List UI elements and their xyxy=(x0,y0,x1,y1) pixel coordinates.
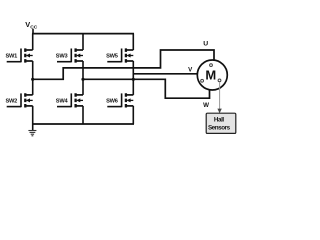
transistor SW2 gate lead xyxy=(7,106,21,108)
wire phase leg SW3-SW4 xyxy=(82,61,84,95)
wire phase A to motor U xyxy=(33,50,214,79)
transistor SW2 body arrow xyxy=(26,98,30,102)
svg-text:SW5: SW5 xyxy=(106,54,118,60)
svg-text:SW1: SW1 xyxy=(6,54,18,60)
transistor SW3 drain stub xyxy=(77,49,84,51)
transistor SW3 body arrow xyxy=(76,54,80,58)
transistor SW5 gate lead xyxy=(107,61,121,63)
transistor SW2 channel bar xyxy=(24,93,26,107)
transistor SW6 channel bar xyxy=(125,93,127,107)
transistor SW4 gate lead xyxy=(57,106,71,108)
transistor SW1 channel bar xyxy=(24,48,26,62)
junction node phase A xyxy=(31,78,34,81)
wire phase C to motor V xyxy=(133,73,197,75)
transistor SW5 channel bar xyxy=(125,48,127,62)
block Hall Sensors xyxy=(206,113,236,133)
motor terminal lower-left xyxy=(201,79,204,82)
svg-text:Hall: Hall xyxy=(214,117,224,124)
transistor SW5 body lead xyxy=(129,55,133,57)
transistor SW4 body arrow xyxy=(76,98,80,102)
transistor SW5 drain stub xyxy=(127,49,134,51)
wire Vcc top rail xyxy=(32,33,134,35)
transistor SW6 drain stub xyxy=(127,94,134,96)
transistor SW5 body arrow xyxy=(127,54,131,58)
wire top rail to SW3 drain xyxy=(82,34,84,50)
transistor SW2 source stub xyxy=(26,105,33,107)
transistor SW4 body lead xyxy=(79,99,83,101)
svg-text:Sensors: Sensors xyxy=(208,124,231,131)
wire SW2 source to bottom rail xyxy=(32,106,34,124)
transistor SW4 source stub xyxy=(77,105,84,107)
transistor SW4 channel bar xyxy=(74,93,76,107)
transistor SW5 source stub xyxy=(127,60,134,62)
transistor SW3 body lead xyxy=(79,55,83,57)
svg-text:SW4: SW4 xyxy=(56,98,69,104)
transistor SW1 body arrow xyxy=(26,54,30,58)
wire phase B/C to motor W xyxy=(83,79,210,98)
transistor SW2 drain stub xyxy=(26,94,33,96)
transistor SW1 body lead xyxy=(29,55,33,57)
transistor SW6 gate lead xyxy=(107,106,121,108)
transistor SW6 body arrow xyxy=(127,98,131,102)
Vcc stub xyxy=(32,29,34,34)
wire motor to hall sensors (sense line) xyxy=(219,82,221,110)
transistor SW2 gate bar xyxy=(20,93,22,107)
transistor SW1 gate lead xyxy=(7,61,21,63)
svg-text:M: M xyxy=(205,67,216,82)
wire ground bottom rail xyxy=(32,123,134,125)
transistor SW2 body lead xyxy=(29,99,33,101)
transistor SW1 source stub xyxy=(26,60,33,62)
wire top rail to SW1 drain xyxy=(32,34,34,50)
transistor SW3 gate lead xyxy=(57,61,71,63)
transistor SW3 gate bar xyxy=(70,49,72,63)
svg-text:SW3: SW3 xyxy=(56,54,68,60)
arrowhead into hall sensors xyxy=(217,109,221,114)
wire SW6 source to bottom rail xyxy=(132,106,134,124)
motor M body xyxy=(197,60,227,90)
transistor SW6 body lead xyxy=(129,99,133,101)
transistor SW4 gate bar xyxy=(70,93,72,107)
svg-text:SW2: SW2 xyxy=(6,98,18,104)
transistor SW1 gate bar xyxy=(20,49,22,63)
transistor SW6 source stub xyxy=(127,105,134,107)
motor terminal lower-right xyxy=(218,79,221,82)
ground symbol xyxy=(28,124,36,136)
transistor SW3 source stub xyxy=(77,60,84,62)
svg-text:SW6: SW6 xyxy=(106,98,118,104)
svg-text:W: W xyxy=(203,102,209,109)
wire SW4 source to bottom rail xyxy=(82,106,84,124)
transistor SW3 channel bar xyxy=(74,48,76,62)
junction node phase B xyxy=(81,78,84,81)
wire top rail to SW5 drain xyxy=(132,34,134,50)
transistor SW6 gate bar xyxy=(121,93,123,107)
transistor SW4 drain stub xyxy=(77,94,84,96)
motor terminal top xyxy=(210,64,213,67)
svg-text:U: U xyxy=(203,40,208,47)
wire phase leg SW1-SW2 xyxy=(32,61,34,95)
junction node phase C xyxy=(132,78,135,81)
transistor SW5 gate bar xyxy=(121,49,123,63)
wire phase leg SW5-SW6 xyxy=(132,61,134,95)
transistor SW1 drain stub xyxy=(26,49,33,51)
